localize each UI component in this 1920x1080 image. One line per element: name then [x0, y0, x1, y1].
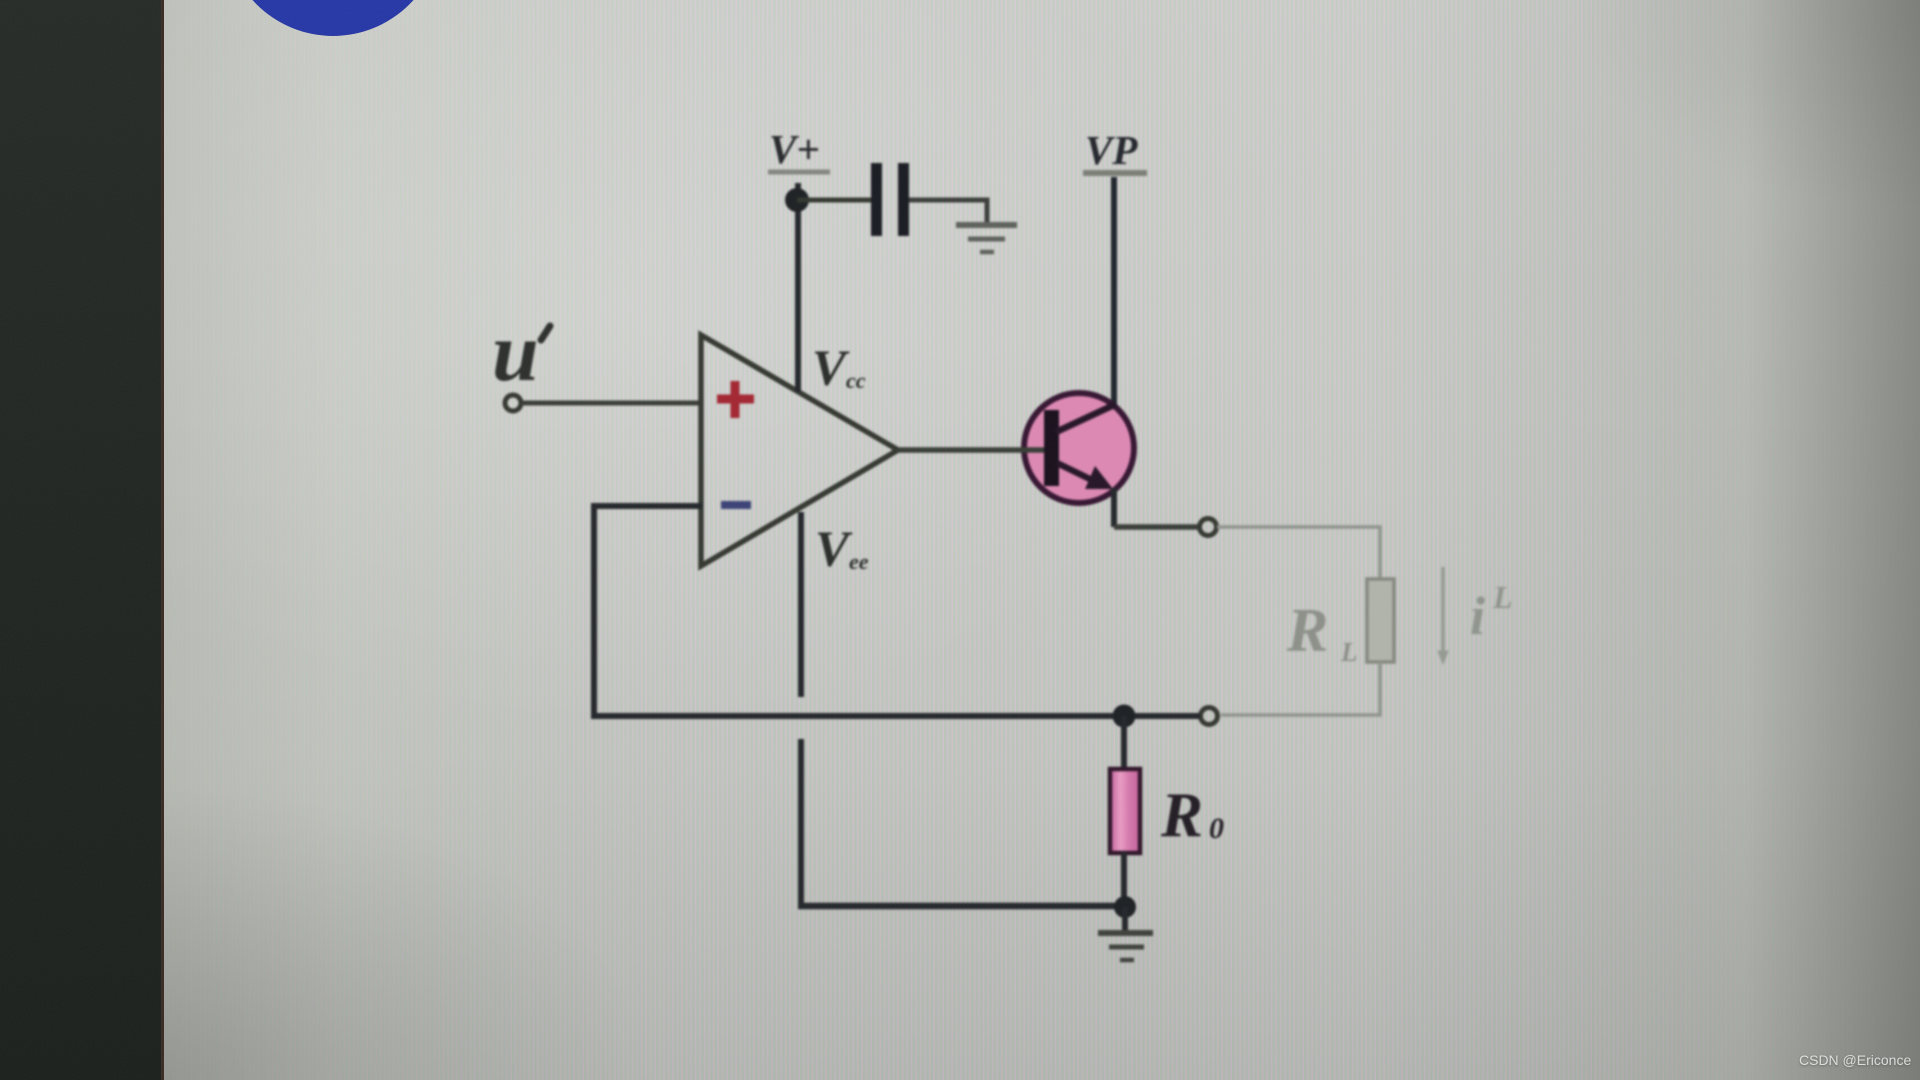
svg-text:ee: ee: [849, 549, 869, 574]
svg-text:V: V: [815, 522, 853, 578]
svg-text:L: L: [1492, 579, 1513, 615]
wire emitter down: [1111, 488, 1117, 527]
iL label: [1470, 579, 1513, 646]
V+ label underline: [768, 170, 830, 175]
svg-text:i: i: [1470, 586, 1485, 646]
wire V+ down to op-amp Vcc pin: [795, 183, 801, 392]
output terminal upper (open circle): [1200, 519, 1217, 536]
junction at ground node: [1114, 896, 1136, 918]
wire u' to op-amp + input: [522, 401, 702, 406]
wire capacitor to ground: [909, 200, 987, 224]
R0 value label: [1160, 780, 1224, 850]
svg-text:R: R: [1286, 597, 1328, 665]
svg-text:V+: V+: [769, 126, 820, 172]
op-amp U1: [701, 335, 898, 566]
transistor Q1 (NPN, body): [1024, 393, 1134, 503]
load resistor RL: [1367, 579, 1394, 662]
op-amp - input marker: [721, 501, 751, 509]
capacitor C1: [871, 163, 909, 236]
output terminal lower (open circle): [1201, 708, 1218, 725]
wire R0 to ground junction: [1121, 852, 1127, 906]
feedback wire: node to op-amp inverting input: [594, 506, 1118, 716]
transistor Q1 base bar: [1044, 410, 1059, 486]
svg-text:R: R: [1160, 780, 1203, 850]
svg-text:L: L: [1340, 637, 1358, 667]
wire junction to lower terminal: [1124, 713, 1200, 719]
svg-text:cc: cc: [846, 368, 866, 393]
svg-text:0: 0: [1209, 812, 1224, 845]
junction at feedback/R0 node: [1113, 705, 1136, 728]
wire node down to R0: [1121, 716, 1127, 770]
wire op-amp output to transistor base: [898, 447, 1046, 453]
wire V+ node to capacitor: [797, 198, 873, 203]
wire op-amp Vee pin down (jumps over feedback wire): [798, 512, 804, 905]
svg-text:u: u: [492, 306, 539, 399]
wire VP to transistor collector: [1111, 177, 1117, 408]
ground (main): [1098, 933, 1153, 960]
VP label underline: [1083, 170, 1147, 176]
op-amp + input marker: [717, 381, 754, 418]
Vee pin label: [815, 522, 869, 578]
wire emitter to output terminal: [1114, 524, 1199, 530]
svg-text:V: V: [812, 341, 850, 397]
input terminal (open circle): [505, 395, 521, 411]
wire Vee to ground node: [798, 903, 1126, 910]
faded load wire: RL bottom to lower terminal: [1221, 662, 1380, 715]
ground (capacitor): [956, 225, 1017, 252]
faded load wire: terminal to RL top: [1217, 527, 1380, 579]
transistor Q1 emitter stroke with arrow: [1057, 463, 1113, 489]
load current iL arrow: [1438, 567, 1448, 664]
svg-text:VP: VP: [1085, 127, 1138, 173]
node u' input label: [492, 306, 550, 399]
transistor Q1 collector stroke: [1056, 404, 1116, 432]
junction at V+ node: [785, 188, 809, 212]
resistor R0: [1110, 769, 1140, 853]
RL value label: [1286, 597, 1358, 667]
Vcc pin label: [812, 341, 866, 397]
ground stub: [1122, 907, 1128, 931]
